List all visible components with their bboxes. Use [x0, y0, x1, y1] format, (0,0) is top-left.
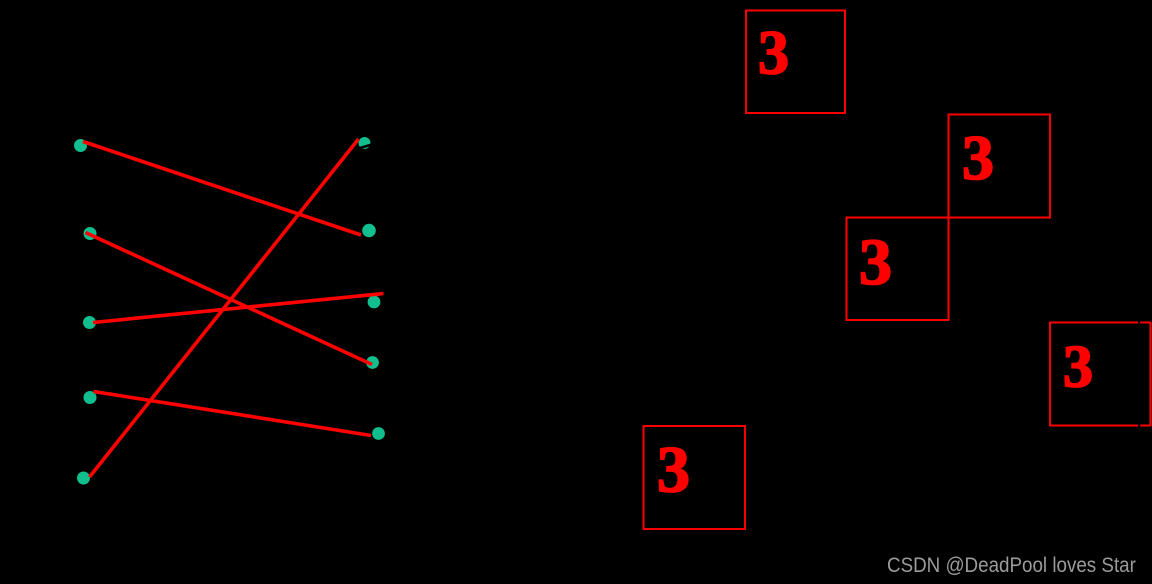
node L1	[74, 139, 87, 152]
square S4	[1050, 320, 1151, 428]
node R4	[366, 356, 379, 369]
square S5	[644, 426, 745, 529]
edge L3-R3	[93, 294, 384, 323]
node R2	[362, 224, 376, 238]
edge L2-R4	[86, 233, 373, 365]
square S3	[847, 218, 949, 320]
node R1	[357, 137, 373, 149]
watermark CSDN	[887, 554, 1136, 578]
node L2	[84, 227, 97, 240]
edge L1-R2	[83, 142, 361, 236]
node L5	[77, 472, 90, 485]
edge L4-R5	[94, 392, 372, 436]
svg-text:3: 3	[1063, 333, 1093, 399]
svg-text:3: 3	[657, 433, 690, 506]
node L3	[83, 316, 96, 329]
svg-text:3: 3	[962, 122, 994, 193]
node R5	[372, 427, 385, 440]
edge L5-R1	[90, 139, 359, 477]
svg-text:3: 3	[859, 226, 892, 299]
node R3	[368, 296, 381, 309]
square S1	[746, 10, 845, 113]
square S2	[948, 114, 1050, 217]
svg-text:3: 3	[758, 20, 789, 88]
node L4	[84, 391, 97, 404]
